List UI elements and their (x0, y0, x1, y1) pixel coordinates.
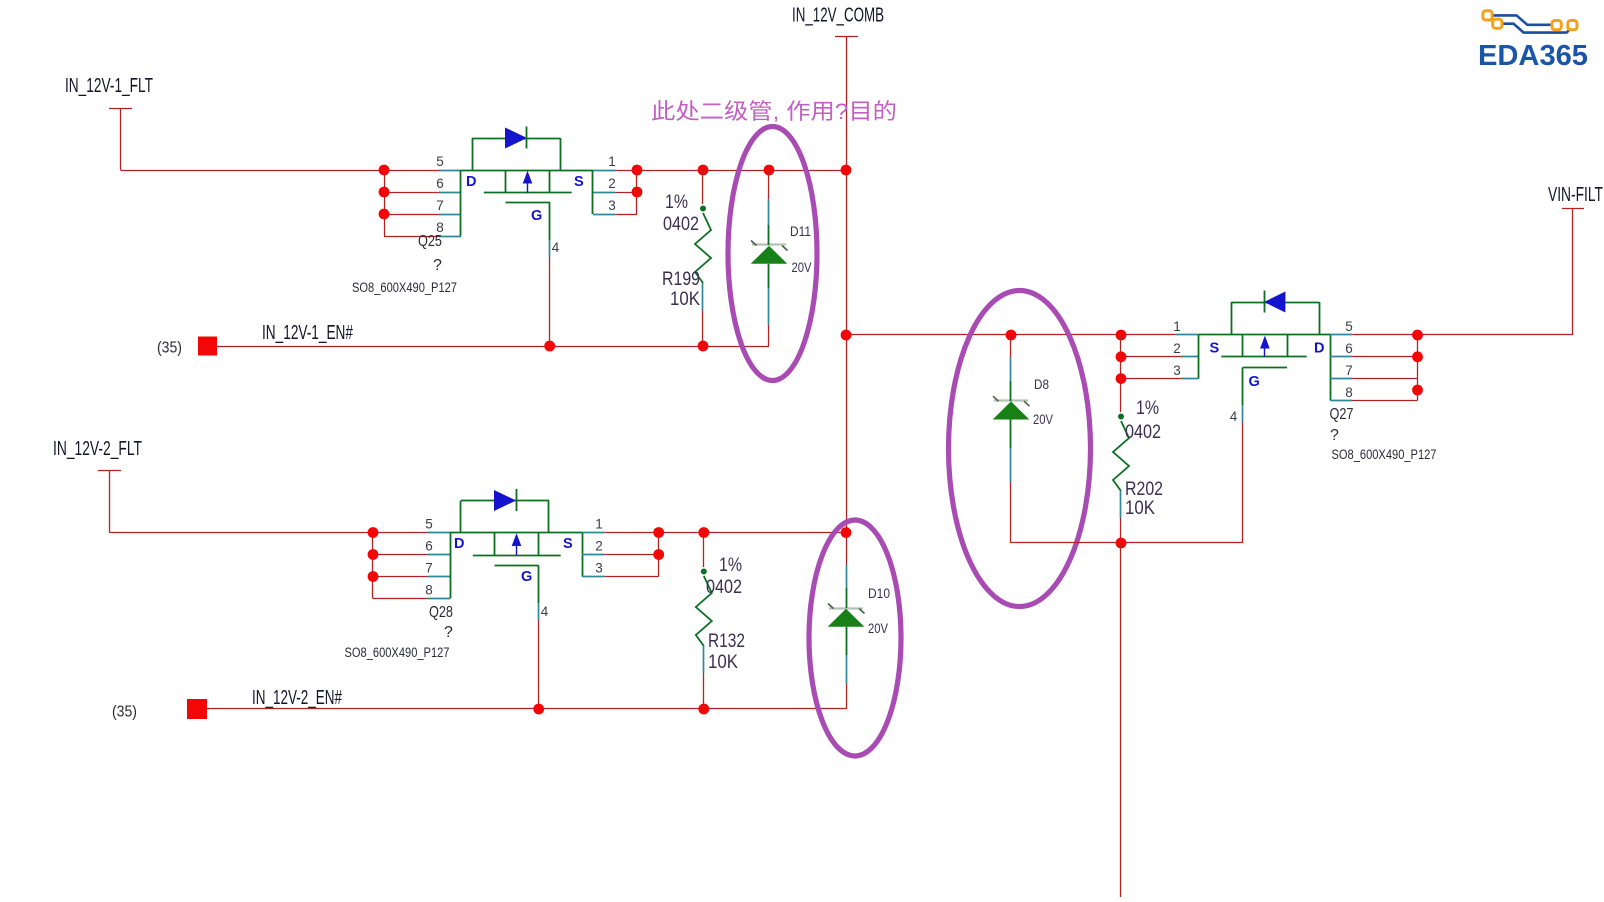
net tick IN_12V_COMB (835, 36, 858, 38)
wire Q25 pin3 (615, 214, 637, 216)
wire Q25 pin2 (615, 192, 637, 194)
svg-text:D: D (454, 536, 464, 552)
junction (1006, 330, 1017, 341)
junction (841, 330, 852, 341)
junction (379, 209, 390, 220)
port square IN_12V-2_EN# (187, 699, 207, 719)
EDA365 logo (1478, 11, 1588, 72)
svg-text:1%: 1% (719, 554, 742, 576)
wire IN_12V-1_FLT vertical drop (120, 108, 122, 170)
wire IN_12V-1_EN# (217, 346, 769, 348)
svg-text:6: 6 (436, 176, 444, 191)
svg-text:5: 5 (436, 154, 444, 169)
junction (379, 187, 390, 198)
wire Q27 pins tie vertical (1417, 335, 1419, 400)
svg-text:10K: 10K (1125, 497, 1155, 519)
svg-text:20V: 20V (792, 259, 813, 275)
junction (533, 704, 544, 715)
wire Q27 gate drop (1242, 422, 1244, 543)
svg-text:0402: 0402 (706, 576, 742, 598)
junction (1412, 330, 1423, 341)
svg-text:VIN-FILT: VIN-FILT (1548, 184, 1603, 206)
resistor R132 (696, 533, 712, 710)
junction (1116, 373, 1127, 384)
junction (379, 165, 390, 176)
svg-text:10K: 10K (670, 288, 700, 310)
wire Q27 pin2 (1121, 356, 1182, 358)
junction (698, 341, 709, 352)
port square IN_12V-1_EN# (198, 337, 217, 356)
junction (653, 527, 664, 538)
svg-text:IN_12V-1_FLT: IN_12V-1_FLT (65, 75, 153, 97)
wire to Q25 pin 6 (384, 192, 440, 194)
wire R202 column down (1120, 543, 1122, 897)
net tick IN_12V-2_FLT (98, 470, 121, 472)
svg-text:1: 1 (608, 154, 616, 169)
junction (1116, 538, 1127, 549)
junction (841, 527, 852, 538)
wire Q27 drain to VIN-FILT (1352, 334, 1573, 336)
wire Q25 source rail (615, 170, 846, 172)
svg-text:7: 7 (425, 561, 433, 576)
svg-text:IN_12V-2_EN#: IN_12V-2_EN# (252, 687, 343, 709)
wire Q28 pins tie vertical (658, 533, 660, 577)
svg-text:6: 6 (1345, 341, 1353, 356)
svg-text:?: ? (444, 624, 453, 641)
resistor R199 (695, 170, 711, 346)
svg-text:4: 4 (552, 240, 560, 255)
wire Q27 pin8 (1352, 400, 1418, 402)
svg-text:?: ? (433, 257, 442, 274)
svg-text:20V: 20V (1033, 411, 1054, 427)
wire gate bottom rail (1011, 542, 1243, 544)
svg-text:2: 2 (1173, 341, 1181, 356)
svg-text:S: S (563, 536, 573, 552)
svg-text:D11: D11 (790, 223, 811, 239)
svg-text:3: 3 (1173, 363, 1181, 378)
svg-text:Q27: Q27 (1330, 406, 1354, 423)
svg-text:此处二级管, 作用?目的: 此处二级管, 作用?目的 (651, 99, 897, 124)
svg-text:IN_12V-2_FLT: IN_12V-2_FLT (53, 438, 142, 460)
svg-text:1%: 1% (665, 191, 688, 213)
svg-text:6: 6 (425, 539, 433, 554)
svg-text:G: G (531, 208, 542, 224)
wire to Q25 pin 8 (384, 236, 440, 238)
svg-text:7: 7 (1345, 363, 1353, 378)
svg-text:G: G (1249, 374, 1260, 390)
svg-text:D8: D8 (1034, 376, 1049, 392)
wire VIN-FILT vertical (1572, 208, 1574, 335)
wire IN_12V-2_FLT to Q28 pin 5 (109, 532, 429, 534)
svg-text:D: D (1314, 341, 1324, 357)
svg-text:SO8_600X490_P127: SO8_600X490_P127 (345, 645, 450, 660)
wire to Q25 pin 7 (384, 214, 440, 216)
wire to Q28 pin 7 (373, 576, 429, 578)
svg-text:SO8_600X490_P127: SO8_600X490_P127 (1332, 447, 1437, 462)
svg-text:0402: 0402 (1125, 421, 1161, 443)
net tick VIN-FILT (1562, 208, 1584, 210)
svg-text:(35): (35) (157, 340, 182, 357)
wire Q28 pin3 (605, 576, 659, 578)
annotation ellipse around D8 (949, 291, 1091, 607)
transistor Q25 (439, 127, 615, 258)
svg-text:(35): (35) (112, 704, 137, 721)
junction (698, 527, 709, 538)
svg-text:EDA365: EDA365 (1478, 40, 1588, 72)
wire to Q28 pin 8 (373, 598, 429, 600)
junction (544, 341, 555, 352)
wire Q27 pin3 (1121, 378, 1182, 380)
svg-text:7: 7 (436, 198, 444, 213)
wire Q28 drain tie vertical (372, 533, 374, 599)
wire Q27 pin6 (1352, 356, 1418, 358)
svg-text:G: G (521, 569, 532, 585)
junction (368, 527, 379, 538)
svg-text:Q28: Q28 (429, 604, 453, 621)
svg-text:S: S (1210, 341, 1220, 357)
wire Q25 pins tie vertical (636, 170, 638, 214)
resistor R202 (1113, 335, 1129, 543)
svg-text:4: 4 (1230, 409, 1238, 424)
junction (698, 165, 709, 176)
junction (841, 165, 852, 176)
svg-text:8: 8 (1345, 385, 1353, 400)
zener diode D8 (993, 335, 1030, 543)
transistor Q28 (428, 489, 605, 620)
svg-text:3: 3 (595, 561, 603, 576)
svg-text:Q25: Q25 (418, 233, 442, 250)
junction (653, 549, 664, 560)
svg-text:1: 1 (1173, 319, 1181, 334)
zener diode D11 (751, 170, 788, 346)
svg-text:IN_12V-1_EN#: IN_12V-1_EN# (262, 322, 354, 344)
svg-text:R199: R199 (662, 268, 700, 290)
wire Q25 drain tie vertical (384, 170, 386, 236)
svg-text:D: D (466, 174, 476, 190)
junction (1116, 330, 1127, 341)
junction (1412, 385, 1423, 396)
svg-text:D10: D10 (868, 585, 890, 601)
svg-text:IN_12V_COMB: IN_12V_COMB (792, 5, 884, 27)
svg-text:1: 1 (595, 517, 603, 532)
svg-text:4: 4 (541, 604, 549, 619)
junction (1412, 351, 1423, 362)
annotation ellipse around D10 (809, 520, 901, 756)
junction (368, 571, 379, 582)
wire mid rail IN_12V_COMB to Q27 (846, 334, 1176, 336)
wire IN_12V-2_FLT vertical drop (109, 471, 111, 533)
junction (632, 187, 643, 198)
wire Q27 pin7 (1352, 378, 1418, 380)
zener diode D10 (828, 565, 865, 709)
annotation ellipse around D11 (728, 127, 817, 381)
svg-text:SO8_600X490_P127: SO8_600X490_P127 (352, 280, 457, 295)
svg-text:8: 8 (425, 583, 433, 598)
transistor Q27 (1176, 291, 1352, 423)
wire Q25 gate drop (549, 257, 551, 346)
svg-text:5: 5 (1345, 319, 1353, 334)
wire Q28 source rail (605, 532, 846, 534)
wire IN_12V-2_EN# (207, 708, 846, 710)
svg-text:2: 2 (595, 539, 603, 554)
svg-text:20V: 20V (868, 620, 889, 636)
wire Q28 pin2 (605, 554, 659, 556)
svg-text:1%: 1% (1136, 397, 1159, 419)
junction (368, 549, 379, 560)
junction (698, 704, 709, 715)
net tick IN_12V-1_FLT (109, 108, 132, 110)
wire IN_12V_COMB vertical (846, 37, 848, 565)
svg-text:?: ? (1330, 427, 1339, 444)
svg-text:2: 2 (608, 176, 616, 191)
junction (1116, 351, 1127, 362)
wire IN_12V-1_FLT to Q25 pin 5 (121, 170, 441, 172)
svg-text:3: 3 (608, 198, 616, 213)
junction (764, 165, 775, 176)
svg-text:0402: 0402 (663, 213, 699, 235)
junction (632, 165, 643, 176)
wire to Q28 pin 6 (373, 554, 429, 556)
svg-text:S: S (574, 174, 584, 190)
wire Q28 gate drop (538, 620, 540, 709)
svg-text:5: 5 (425, 517, 433, 532)
svg-text:R132: R132 (708, 630, 745, 652)
svg-text:10K: 10K (708, 651, 738, 673)
